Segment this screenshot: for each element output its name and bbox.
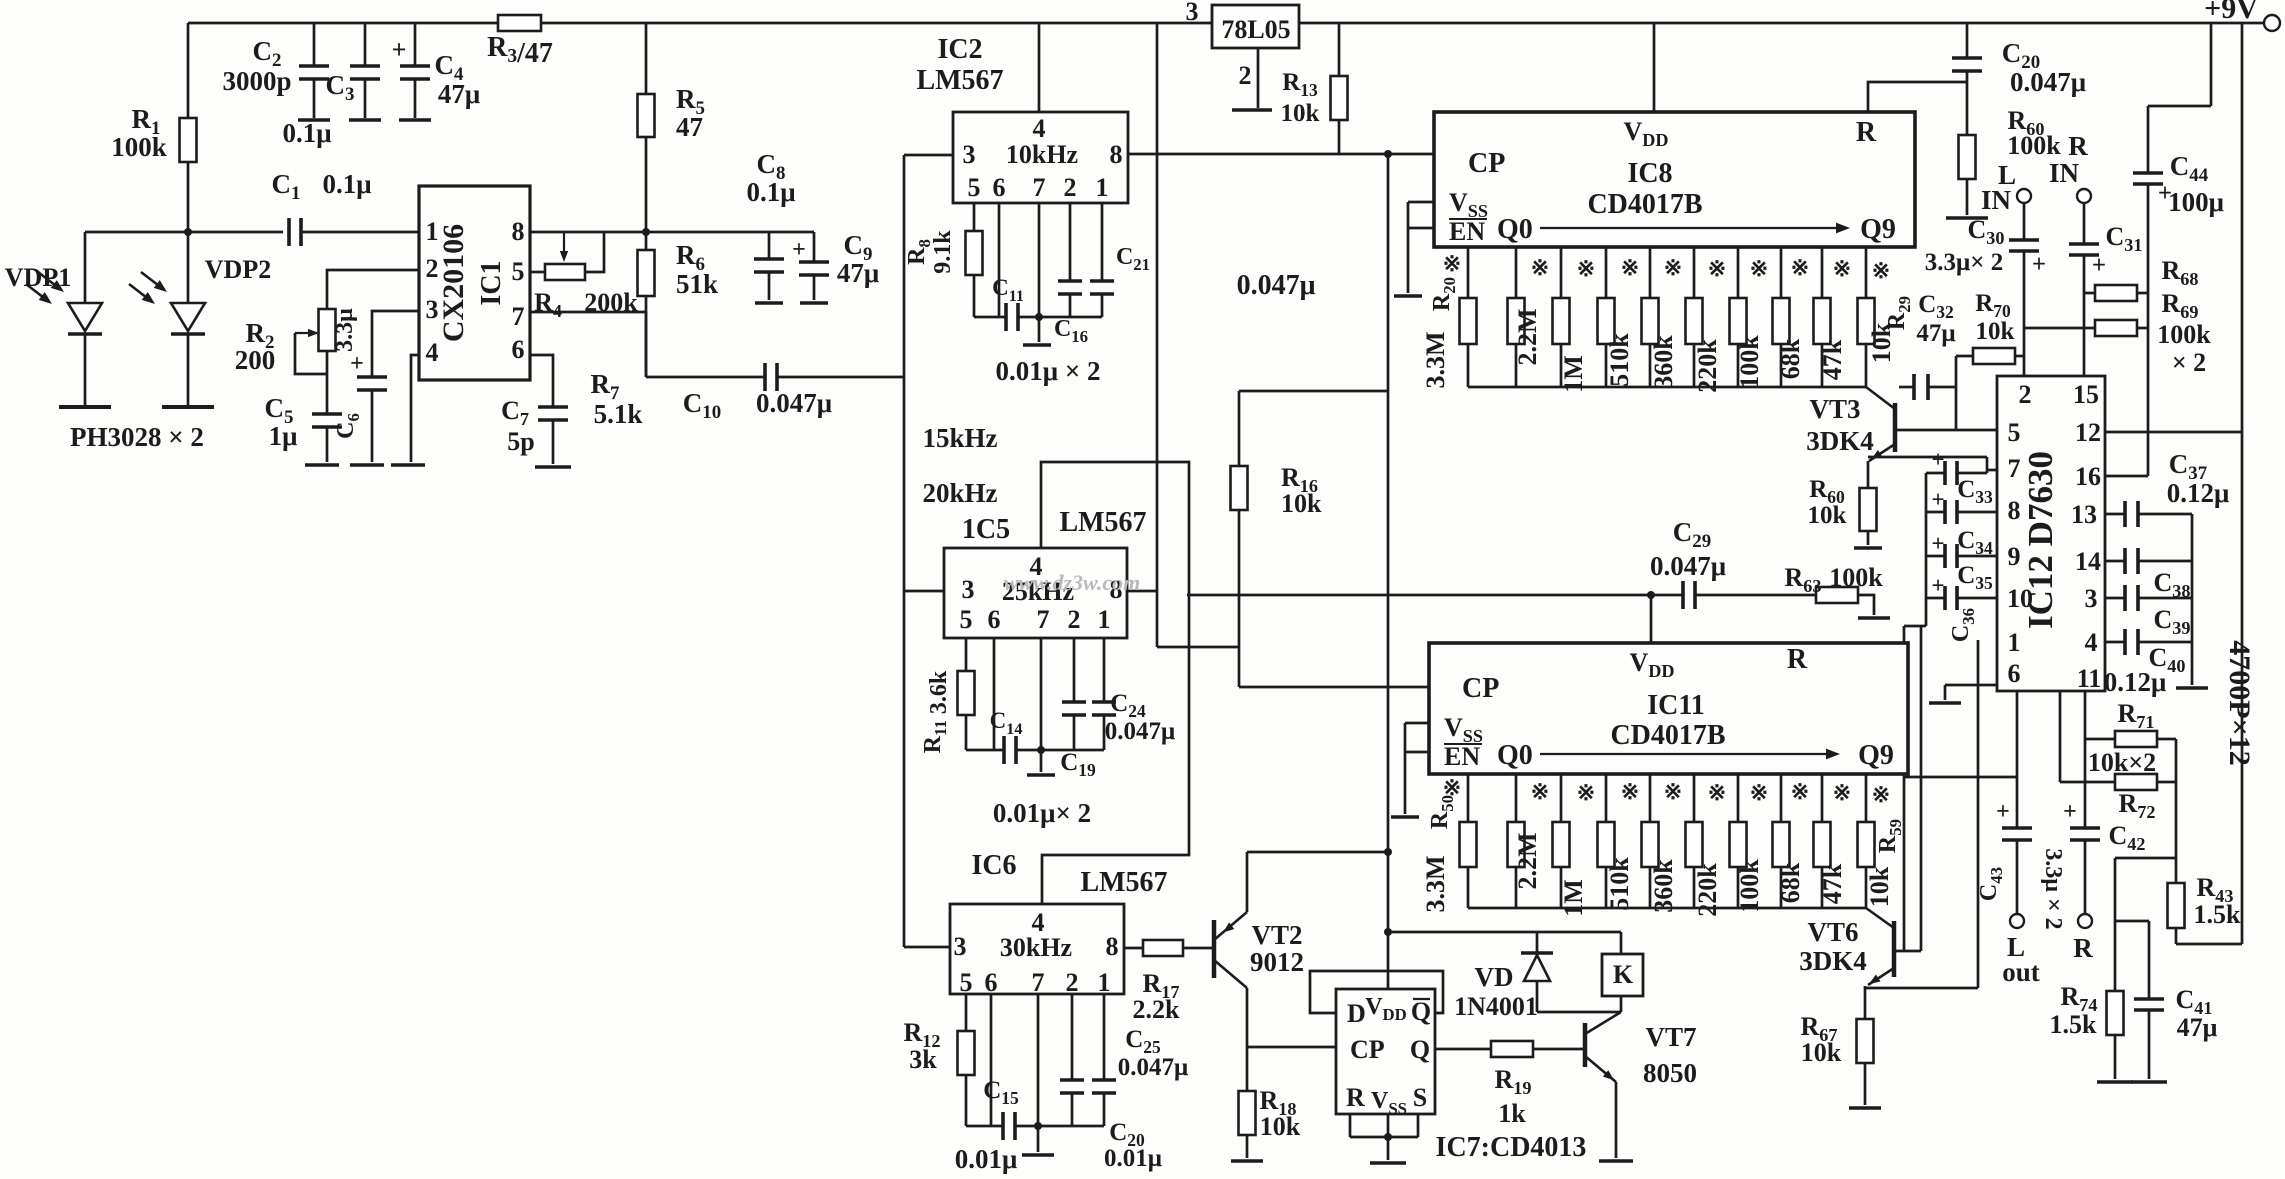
resistor R43 (2168, 883, 2185, 928)
svg-text:IN: IN (1981, 185, 2012, 215)
wire IC5 pin4 loop (1041, 462, 1189, 904)
svg-text:47μ: 47μ (1916, 320, 1955, 347)
svg-text:※: ※ (1664, 779, 1682, 804)
wire pin6 column (1904, 776, 2017, 779)
svg-text:15kHz: 15kHz (922, 423, 997, 453)
svg-text:C15: C15 (983, 1077, 1019, 1108)
svg-text:R68: R68 (2162, 256, 2199, 289)
svg-text:4: 4 (426, 338, 439, 367)
svg-text:S: S (1413, 1083, 1427, 1112)
svg-text:6: 6 (988, 605, 1001, 634)
svg-text:5: 5 (512, 257, 525, 286)
svg-text:IC8: IC8 (1627, 158, 1672, 189)
svg-text:Q0: Q0 (1497, 214, 1533, 245)
svg-text:VT6: VT6 (1807, 917, 1858, 947)
regulator 78L05 (1212, 5, 1299, 48)
resistor R70 (1956, 355, 1973, 358)
svg-text:1k: 1k (1498, 1099, 1526, 1128)
wire VT3 emitter to pin7 (1868, 456, 1987, 459)
wire cap rail right (2191, 514, 2194, 685)
svg-text:14: 14 (2075, 547, 2101, 576)
svg-text:C11: C11 (992, 275, 1024, 305)
svg-text:+: + (1996, 799, 2010, 825)
op-amp U6 IC6 LM567 (950, 904, 1124, 994)
svg-text:6: 6 (512, 335, 525, 364)
svg-text:Q: Q (1410, 1035, 1430, 1064)
capacitor C20b pin1 (1103, 994, 1106, 1080)
svg-text:3.3μ × 2: 3.3μ × 2 (2040, 848, 2066, 929)
svg-text:12: 12 (2075, 418, 2101, 447)
svg-text:360k: 360k (1649, 859, 1678, 913)
capacitor C11 (974, 316, 1006, 319)
svg-text:C31: C31 (2106, 222, 2143, 255)
wire IC6 pin6 (990, 994, 993, 1126)
svg-text:100k: 100k (1829, 563, 1883, 592)
svg-text:10k: 10k (1976, 318, 2015, 345)
resistor R74 (2107, 991, 2124, 1035)
wire IC6 pin7 ground (1037, 994, 1040, 1126)
resistor R72 (2060, 781, 2115, 784)
svg-text:C10: C10 (683, 388, 721, 423)
ground R18 (1231, 1159, 1263, 1163)
capacitor C42 (2070, 826, 2100, 830)
svg-text:3DK4: 3DK4 (1799, 946, 1867, 976)
svg-text:100k: 100k (111, 132, 167, 162)
svg-text:※: ※ (1577, 256, 1595, 281)
svg-text:3: 3 (426, 295, 439, 324)
svg-text:47μ: 47μ (837, 258, 879, 288)
wire IC6 pin8 to R17 (1124, 947, 1143, 950)
svg-text:0.047μ: 0.047μ (1650, 551, 1726, 581)
resistor R18 (1246, 1047, 1249, 1091)
svg-text:3: 3 (963, 140, 976, 169)
capacitor C39 pin3 (2105, 597, 2125, 600)
capacitor C8 (768, 232, 771, 259)
svg-text:C7: C7 (501, 396, 529, 429)
node R out terminal (2078, 914, 2092, 928)
svg-text:CP: CP (1350, 1035, 1385, 1064)
svg-text:10k: 10k (1260, 1112, 1301, 1141)
svg-text:100k: 100k (1735, 335, 1764, 389)
wire IC2 pin6 (998, 203, 1001, 317)
svg-text:5p: 5p (507, 427, 534, 456)
svg-text:+: + (792, 237, 806, 263)
svg-text:68k: 68k (1776, 338, 1805, 379)
ground IC7 (1370, 1161, 1406, 1165)
wire rail drop to pin8 bus (1156, 23, 1159, 154)
capacitor C7 (538, 405, 568, 409)
svg-text:+: + (2063, 799, 2077, 825)
wire IC2 pin7 to ground (1038, 203, 1041, 317)
capacitor C32 (1912, 374, 1916, 400)
svg-text:VT3: VT3 (1809, 394, 1860, 424)
svg-text:2: 2 (426, 254, 439, 283)
svg-text:K: K (1613, 960, 1634, 989)
ground IC6 (1022, 1153, 1054, 1157)
svg-text:10kHz: 10kHz (1006, 140, 1078, 169)
svg-text:R: R (1787, 644, 1808, 675)
svg-text:IC6: IC6 (971, 850, 1016, 881)
svg-text:1.5k: 1.5k (2050, 1010, 2098, 1039)
wire VT6 emitter (1865, 987, 1978, 990)
svg-text:3k: 3k (909, 1045, 937, 1074)
svg-text:※: ※ (1621, 779, 1639, 804)
capacitor C14 (966, 749, 1004, 752)
svg-text:PH3028 × 2: PH3028 × 2 (70, 422, 204, 452)
resistor R67 (1857, 1019, 1874, 1063)
transistor Q2 VT2 9012 (1212, 920, 1217, 978)
svg-text:5: 5 (2008, 418, 2021, 447)
svg-text:※: ※ (1708, 780, 1726, 805)
wire +9V top rail (188, 22, 1212, 25)
node IC5 pin7 junction (1037, 746, 1045, 754)
wire IC11 CP (1239, 686, 1429, 689)
svg-text:IN: IN (2049, 158, 2080, 188)
svg-text:10k: 10k (1281, 100, 1320, 127)
svg-text:2.2M: 2.2M (1513, 308, 1542, 365)
potentiometer R2 (319, 309, 336, 351)
svg-text:1: 1 (1098, 605, 1111, 634)
svg-text:C38: C38 (2154, 568, 2191, 601)
transistor Q6 VT6 3DK4 (1892, 921, 1897, 977)
capacitor C37 pin13 (2105, 513, 2125, 516)
wire IC1 pin5 to R4 (530, 271, 545, 274)
svg-text:※: ※ (1531, 779, 1549, 804)
svg-text:0.01μ× 2: 0.01μ× 2 (993, 798, 1091, 828)
svg-text:8: 8 (512, 217, 525, 246)
svg-text:68k: 68k (1776, 862, 1805, 903)
svg-text:※: ※ (1750, 256, 1768, 281)
svg-text:0.047μ: 0.047μ (1118, 1054, 1188, 1081)
svg-text:0.1μ: 0.1μ (322, 169, 371, 199)
svg-text:+: + (1931, 531, 1944, 556)
svg-text:C29: C29 (1673, 517, 1711, 552)
capacitor C21 pin1 (1101, 203, 1104, 281)
capacitor C3 (364, 23, 367, 66)
svg-text:220k: 220k (1693, 863, 1722, 917)
svg-text:VDD: VDD (1365, 994, 1407, 1024)
svg-text:3000p: 3000p (222, 66, 291, 96)
capacitor C44 (2210, 23, 2213, 106)
capacitor C5 (312, 412, 342, 416)
svg-text:R4: R4 (534, 288, 562, 321)
svg-text:EN: EN (1444, 742, 1480, 771)
wire IC2 pin8 CP bus (1128, 153, 1434, 156)
svg-text:2.2M: 2.2M (1513, 832, 1542, 889)
wire C29 line (1187, 594, 1683, 597)
wire IC11 VDD drop (1650, 595, 1653, 643)
wire IC11 VSS EN hook (1405, 722, 1429, 725)
resistor R68 (2084, 292, 2095, 295)
node R IN terminal (2077, 189, 2091, 203)
svg-text:※: ※ (1621, 255, 1639, 280)
svg-text:C32: C32 (1918, 291, 1954, 322)
svg-text:10k: 10k (1865, 866, 1894, 907)
svg-text:360k: 360k (1649, 335, 1678, 389)
svg-text:※: ※ (1577, 780, 1595, 805)
svg-text:10k×2: 10k×2 (2088, 748, 2156, 777)
svg-text:R70: R70 (1975, 290, 2011, 321)
capacitor C29 (1681, 581, 1685, 609)
svg-text:R20: R20 (1429, 277, 1459, 311)
svg-text:※: ※ (1443, 251, 1461, 276)
svg-text:+: + (1931, 487, 1944, 512)
svg-text:20kHz: 20kHz (922, 478, 997, 508)
wire IC5 pin3 (904, 590, 944, 593)
wire IC1 pin3 to C6 (372, 311, 419, 377)
resistor R5 (645, 23, 648, 94)
capacitor C15 (966, 1125, 1003, 1128)
svg-text:R69: R69 (2162, 289, 2199, 322)
svg-text:47: 47 (676, 112, 703, 142)
svg-text:3.3μ: 3.3μ (332, 308, 358, 352)
capacitor C34 (1926, 511, 1945, 514)
svg-text:0.01μ × 2: 0.01μ × 2 (996, 356, 1101, 386)
capacitor C35 (1926, 555, 1945, 558)
capacitor C38 pin14 (2105, 560, 2125, 563)
svg-text:1M: 1M (1559, 355, 1588, 393)
node IC2 pin7 junction (1035, 313, 1043, 321)
capacitor C4 (414, 23, 417, 66)
svg-text:CP: CP (1462, 673, 1499, 704)
svg-text:out: out (2002, 957, 2040, 987)
svg-text:100k: 100k (1735, 859, 1764, 913)
svg-text:3: 3 (1186, 0, 1199, 26)
svg-text:+: + (2092, 252, 2106, 279)
svg-text:11: 11 (2077, 664, 2102, 693)
svg-text:C21: C21 (1116, 244, 1150, 274)
wire IC5 pin6 (993, 638, 996, 750)
wire IC7 bottom pins (1349, 1114, 1352, 1137)
wire R71 rail (2175, 739, 2178, 883)
resistor R12 (965, 994, 968, 1031)
svg-text:3: 3 (954, 932, 967, 961)
svg-text:C42: C42 (2109, 821, 2146, 854)
svg-text:7: 7 (1033, 173, 1046, 202)
svg-text:5.1k: 5.1k (594, 399, 643, 429)
ground VT7 (1599, 1159, 1633, 1163)
svg-text:※: ※ (1531, 255, 1549, 280)
resistor R17 (1143, 940, 1183, 956)
svg-text:R50: R50 (1427, 795, 1457, 829)
svg-text:R59: R59 (1875, 819, 1905, 853)
svg-text:C33: C33 (1957, 476, 1993, 507)
wire IC5 pin8 (1127, 590, 1157, 593)
svg-text:C25: C25 (1125, 1026, 1161, 1057)
audio chip U12 IC12 D7630 (1997, 376, 2105, 691)
svg-text:C34: C34 (1957, 527, 1993, 558)
svg-text:0.12μ: 0.12μ (2167, 478, 2230, 508)
wire Q0-Q9 arrow IC11 (1540, 753, 1828, 755)
capacitor IC5 pin2 (1073, 638, 1076, 702)
wire pin16 (2105, 475, 2148, 478)
wire pin11 column (2084, 691, 2087, 828)
svg-text:※: ※ (1833, 780, 1851, 805)
svg-text:8: 8 (1110, 140, 1123, 169)
wire IC1 pin8 to node (530, 231, 646, 234)
svg-text:47k: 47k (1818, 339, 1847, 380)
svg-text:78L05: 78L05 (1221, 15, 1290, 44)
resistor R13 (1338, 23, 1341, 76)
node +9V terminal (2264, 15, 2280, 31)
transistor Q3 VT3 3DK4 (1893, 403, 1898, 452)
svg-text:C6: C6 (333, 413, 363, 439)
capacitor IC2 pin2 (1069, 203, 1072, 281)
svg-text:4: 4 (2085, 628, 2098, 657)
svg-text:R: R (2068, 131, 2088, 161)
svg-text:6: 6 (985, 968, 998, 997)
svg-text:200: 200 (235, 345, 276, 375)
wire pin7 down to C10 (645, 312, 648, 377)
wire right rail drop (2241, 23, 2244, 944)
svg-text:100k: 100k (2007, 131, 2061, 160)
capacitor C1 (188, 231, 283, 234)
svg-text:510k: 510k (1605, 857, 1634, 911)
svg-text:3.3M: 3.3M (1421, 855, 1450, 912)
resistor R6 (645, 232, 648, 250)
svg-text:※: ※ (1833, 256, 1851, 281)
op-amp U5 IC5 LM567 (944, 548, 1127, 638)
wire node to C8 C9 (646, 231, 814, 234)
node pin8/R5/R6 (642, 228, 650, 236)
svg-text:2: 2 (1066, 968, 1079, 997)
wire 5V to relay rail (1388, 931, 1621, 934)
svg-text:5: 5 (960, 968, 973, 997)
wire VT2 collector to IC7 CP (1247, 1046, 1336, 1049)
svg-text:C35: C35 (1957, 562, 1993, 593)
resistor R1 (187, 23, 190, 118)
resistor R69 (2024, 327, 2095, 330)
capacitor C36 (1926, 597, 1945, 600)
svg-text:47k: 47k (1818, 863, 1847, 904)
svg-text:EN: EN (1449, 217, 1485, 246)
svg-text:※: ※ (1750, 780, 1768, 805)
resistor R60 100k (1959, 135, 1976, 179)
wire cap rail to IC11 R (1925, 473, 1928, 626)
svg-text:※: ※ (1791, 255, 1809, 280)
svg-text:C43: C43 (1976, 867, 2006, 901)
svg-text:VDD: VDD (1629, 648, 1674, 681)
svg-text:3: 3 (2085, 584, 2098, 613)
svg-text:0.047μ: 0.047μ (1105, 718, 1175, 745)
svg-text:1: 1 (1098, 968, 1111, 997)
svg-text:※: ※ (1708, 256, 1726, 281)
resistor ladder IC8 R20-R29 (1467, 247, 1470, 298)
svg-text:※: ※ (1872, 258, 1890, 283)
svg-text:0.01μ: 0.01μ (955, 1144, 1018, 1174)
svg-text:Q: Q (1411, 997, 1431, 1026)
resistor R3 inline (498, 15, 541, 31)
svg-text:※: ※ (1664, 255, 1682, 280)
svg-text:0.01μ: 0.01μ (1104, 1145, 1162, 1172)
wire IC1 pin7 (530, 311, 646, 314)
svg-text:7: 7 (1037, 605, 1050, 634)
svg-text:CX20106: CX20106 (437, 224, 470, 342)
transistor Q7 VT7 8050 (1583, 1023, 1588, 1067)
capacitor C2 (313, 23, 316, 66)
svg-text:IC2: IC2 (937, 34, 982, 65)
node L IN terminal (2017, 189, 2031, 203)
wire pin1 column (2059, 691, 2062, 782)
wire pin6 ground stub (1945, 684, 1997, 687)
svg-text:C44: C44 (2170, 151, 2209, 186)
capacitor C20 top (1966, 23, 1969, 58)
capacitor C10 (763, 363, 767, 391)
wire Qbar to D loop (1310, 971, 1443, 1013)
svg-text:VDP1: VDP1 (5, 263, 71, 292)
capacitor C6 (357, 375, 387, 379)
svg-text:16: 16 (2075, 462, 2101, 491)
svg-text:15: 15 (2073, 380, 2099, 409)
svg-text:10k: 10k (1808, 502, 1847, 529)
svg-text:C3: C3 (326, 70, 355, 105)
svg-text:C16: C16 (1054, 316, 1088, 346)
capacitor C9 (813, 232, 816, 262)
svg-text:3: 3 (962, 575, 975, 604)
svg-text:1: 1 (2008, 628, 2021, 657)
wire bus vertical left (903, 155, 906, 947)
svg-text:Q9: Q9 (1860, 214, 1896, 245)
svg-text:R: R (1346, 1083, 1365, 1112)
svg-text:CD4017B: CD4017B (1587, 189, 1702, 220)
ground C19 (1027, 773, 1055, 777)
svg-text:0.12μ: 0.12μ (2104, 667, 2167, 697)
capacitor C41 (2134, 997, 2164, 1001)
wire IC2 pin3 to bus (904, 154, 953, 157)
svg-text:× 2: × 2 (2172, 348, 2206, 377)
svg-text:R: R (1856, 117, 1877, 148)
svg-text:510k: 510k (1605, 333, 1634, 387)
capacitor C24 pin1 (1103, 638, 1106, 702)
svg-text:1μ: 1μ (269, 421, 298, 451)
svg-text:R11 3.6k: R11 3.6k (920, 670, 952, 753)
svg-text:R3/47: R3/47 (487, 32, 553, 69)
ground IC11 VSS EN (1391, 815, 1419, 819)
svg-text:C39: C39 (2154, 605, 2191, 638)
svg-text:1: 1 (1096, 173, 1109, 202)
svg-text:7: 7 (512, 302, 525, 331)
svg-text:1N4001: 1N4001 (1454, 992, 1538, 1021)
svg-text:+: + (1931, 573, 1944, 598)
svg-text:R63: R63 (1785, 563, 1822, 596)
svg-text:100μ: 100μ (2168, 187, 2224, 217)
svg-text:9.1k: 9.1k (930, 230, 956, 274)
wire IC2 pin4 to rail (1038, 23, 1041, 112)
svg-text:VD: VD (1475, 962, 1514, 992)
counter U11 IC11 CD4017B (1429, 643, 1908, 774)
svg-text:51k: 51k (676, 269, 718, 299)
svg-text:7: 7 (1032, 968, 1045, 997)
svg-text:R29: R29 (1884, 296, 1914, 330)
svg-text:+: + (2032, 251, 2046, 278)
svg-text:6: 6 (2008, 659, 2021, 688)
svg-text:6: 6 (993, 173, 1006, 202)
svg-text:10: 10 (2007, 584, 2033, 613)
svg-text:IC1: IC1 (476, 260, 507, 305)
wire IC1 pin4 to ground (411, 355, 419, 462)
svg-text:R: R (2073, 933, 2093, 963)
svg-text:0.1μ: 0.1μ (282, 118, 331, 148)
svg-text:3.3M: 3.3M (1421, 331, 1450, 388)
svg-text:C24: C24 (1110, 690, 1146, 721)
wire IC8 R pin to C20 (1868, 82, 1967, 112)
wire IC7 Q to R19 (1435, 1048, 1491, 1051)
wire VT2 emitter to 5V bus (1247, 851, 1388, 854)
wire jog to R74 (2115, 857, 2176, 860)
node L out terminal (2010, 914, 2024, 928)
svg-text:R19: R19 (1495, 1065, 1532, 1098)
wire to photodiodes (85, 231, 188, 234)
